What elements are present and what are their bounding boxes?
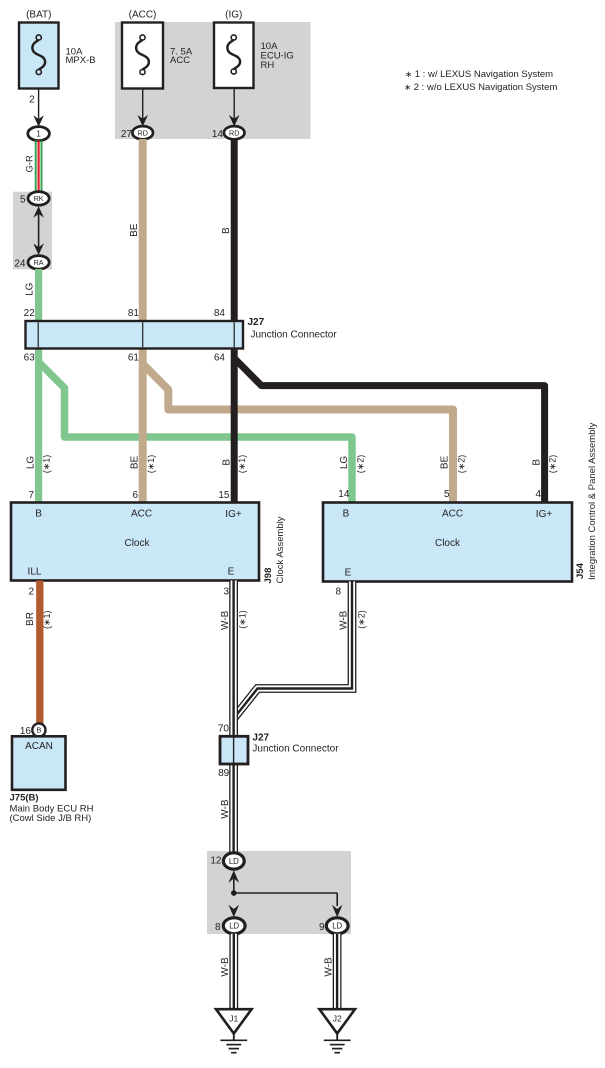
svg-text:(BAT): (BAT) xyxy=(26,10,51,21)
svg-text:70: 70 xyxy=(218,724,230,735)
svg-text:64: 64 xyxy=(214,353,226,364)
svg-text:(∗1): (∗1) xyxy=(42,455,52,474)
svg-text:5: 5 xyxy=(444,489,450,500)
pin 14 connector RD xyxy=(212,126,245,140)
pin 14 (right clock) xyxy=(338,489,350,500)
label J98 Clock Assembly xyxy=(263,516,286,583)
svg-text:J75(B): J75(B) xyxy=(10,793,39,804)
wire B main vertical from pin 14 to clock pin 15 xyxy=(231,139,238,503)
svg-text:89: 89 xyxy=(218,768,230,779)
label LG (*1) xyxy=(26,455,52,474)
pin 5 connector RK xyxy=(20,192,49,206)
svg-text:IG+: IG+ xyxy=(225,509,242,520)
pin 24 connector RA xyxy=(14,256,49,270)
wire BR from ILL to main body ECU xyxy=(36,581,43,724)
svg-text:(∗1): (∗1) xyxy=(146,455,156,474)
svg-text:(∗2): (∗2) xyxy=(548,455,558,474)
arrow down into LD 9 xyxy=(332,905,343,918)
svg-text:Clock Assembly: Clock Assembly xyxy=(275,516,286,583)
svg-text:(∗2): (∗2) xyxy=(457,455,467,474)
junction connector J27 bar xyxy=(26,321,244,349)
double arrow between RK and RA xyxy=(33,206,44,255)
svg-text:RD: RD xyxy=(138,128,148,137)
wire splice horizontal xyxy=(234,893,337,906)
svg-text:ACC: ACC xyxy=(131,509,152,520)
svg-text:E: E xyxy=(228,567,235,578)
pin 2 (ILL) xyxy=(28,587,34,598)
svg-text:ACAN: ACAN xyxy=(25,741,53,752)
fuse (IG) 10A ECU-IG RH xyxy=(214,10,294,89)
svg-text:4: 4 xyxy=(535,489,541,500)
shaded area around RK/RA connectors xyxy=(13,192,52,270)
svg-text:B: B xyxy=(221,459,232,466)
svg-text:B: B xyxy=(343,509,350,520)
svg-text:ILL: ILL xyxy=(28,567,42,578)
svg-text:BE: BE xyxy=(129,456,140,470)
pin 12 connector LD xyxy=(210,853,244,869)
shaded area around LD splice connectors xyxy=(207,851,351,934)
svg-text:22: 22 xyxy=(24,308,36,319)
svg-text:B: B xyxy=(221,227,232,234)
label BR (*1) xyxy=(25,610,52,629)
pin 22 xyxy=(24,308,36,319)
pin 3 (E left clock) xyxy=(223,587,229,598)
pin 15 xyxy=(218,490,230,501)
ground J1 xyxy=(216,1009,252,1052)
svg-text:J27: J27 xyxy=(252,733,269,744)
label J27 Junction Connector (square) xyxy=(252,733,339,755)
shaded area around ACC and IG fuses xyxy=(115,22,311,139)
label J54 Integration Control & Panel Assembly xyxy=(575,422,598,580)
svg-text:5: 5 xyxy=(20,194,26,205)
pin 70 xyxy=(218,724,230,735)
label B (*1) xyxy=(221,455,247,474)
wire LG branch to right clock pin 14 xyxy=(39,362,352,503)
svg-text:J1: J1 xyxy=(229,1014,238,1024)
svg-text:∗ 2 : w/o LEXUS Navigation Sys: ∗ 2 : w/o LEXUS Navigation System xyxy=(404,82,557,93)
svg-text:E: E xyxy=(345,568,352,579)
svg-text:Junction Connector: Junction Connector xyxy=(251,330,338,341)
label BE (*1) xyxy=(129,455,156,474)
svg-text:B: B xyxy=(532,459,543,466)
main body ECU block (ACAN) xyxy=(12,736,66,790)
svg-text:7: 7 xyxy=(28,490,34,501)
svg-text:61: 61 xyxy=(128,353,140,364)
label W-B (*1) xyxy=(220,610,247,630)
pin 84 xyxy=(214,308,226,319)
svg-text:24: 24 xyxy=(14,259,26,270)
label BE (*2) xyxy=(440,455,467,474)
svg-text:2: 2 xyxy=(28,587,34,598)
ground J2 xyxy=(319,1009,355,1052)
label B (*2) xyxy=(532,455,558,474)
label J27 Junction Connector xyxy=(248,317,338,341)
junction connector J27 (square) xyxy=(220,736,248,764)
fuse (ACC) 7.5A ACC xyxy=(122,10,193,89)
svg-text:1: 1 xyxy=(36,129,41,138)
wire BE branch to right clock pin 5 xyxy=(143,364,453,503)
svg-text:J2: J2 xyxy=(333,1014,342,1024)
svg-text:LG: LG xyxy=(339,456,350,470)
svg-text:(IG): (IG) xyxy=(225,10,242,21)
svg-text:BE: BE xyxy=(440,456,451,470)
fuse (BAT) 10A MPX-B xyxy=(19,10,96,89)
wire G-R (green/red) from connector 1 to RK xyxy=(36,140,42,192)
svg-text:RK: RK xyxy=(34,194,44,203)
svg-text:W-B: W-B xyxy=(338,610,349,630)
label LG (*2) xyxy=(339,455,365,474)
pin 63 xyxy=(24,353,36,364)
label G-R xyxy=(24,155,35,173)
svg-text:(∗1): (∗1) xyxy=(237,610,247,629)
svg-text:(Cowl Side J/B RH): (Cowl Side J/B RH) xyxy=(10,813,92,824)
svg-text:2: 2 xyxy=(29,95,35,106)
svg-text:(∗1): (∗1) xyxy=(42,610,52,629)
svg-text:(∗2): (∗2) xyxy=(355,455,365,474)
pin 16 connector B xyxy=(20,723,46,737)
svg-text:G-R: G-R xyxy=(24,155,35,173)
wire LG from RA to junction connector xyxy=(35,269,42,322)
arrow down into LD 8 xyxy=(229,905,240,918)
svg-text:(ACC): (ACC) xyxy=(129,10,157,21)
pin 27 connector RD xyxy=(121,126,153,140)
svg-text:8: 8 xyxy=(335,587,341,598)
svg-text:ACC: ACC xyxy=(170,55,190,66)
label B (top segment) xyxy=(221,227,232,234)
clock J54 (integration control & panel assembly) xyxy=(323,503,572,582)
svg-text:J27: J27 xyxy=(248,317,265,328)
svg-text:ACC: ACC xyxy=(442,509,463,520)
pin 64 xyxy=(214,353,226,364)
wire from IG fuse to pin 14 xyxy=(229,88,240,127)
svg-text:LG: LG xyxy=(24,282,35,296)
pin 89 xyxy=(218,768,230,779)
pin 8 (E right clock) xyxy=(335,587,341,598)
wire W-B to ground J1 xyxy=(229,934,238,1009)
wire from ACC fuse to pin 27 xyxy=(137,89,148,127)
svg-text:27: 27 xyxy=(121,129,133,140)
wire from BAT fuse to connector 1 xyxy=(33,89,44,127)
label W-B (*2) xyxy=(338,610,366,630)
svg-text:14: 14 xyxy=(212,129,224,140)
pin 81 xyxy=(128,308,140,319)
svg-text:14: 14 xyxy=(338,489,350,500)
svg-text:12: 12 xyxy=(210,856,222,867)
pin 61 xyxy=(128,353,140,364)
svg-text:9: 9 xyxy=(319,922,325,933)
svg-text:RH: RH xyxy=(261,60,275,71)
pin 8 connector LD xyxy=(215,918,245,934)
svg-text:15: 15 xyxy=(218,490,230,501)
svg-text:Integration Control & Panel As: Integration Control & Panel Assembly xyxy=(587,422,598,580)
svg-text:LD: LD xyxy=(229,857,239,866)
wire BE main vertical from pin 27 to clock pin 6 xyxy=(139,139,147,503)
svg-text:81: 81 xyxy=(128,308,140,319)
svg-text:(∗1): (∗1) xyxy=(237,455,247,474)
pin 7 xyxy=(28,490,34,501)
wire B branch to right clock pin 4 xyxy=(234,358,544,503)
svg-text:BR: BR xyxy=(25,612,36,626)
svg-text:Clock: Clock xyxy=(124,538,150,549)
svg-text:(∗2): (∗2) xyxy=(356,610,366,629)
connector 1 xyxy=(28,127,50,141)
label J75(B) Main Body ECU RH (Cowl Side J/B RH) xyxy=(10,793,94,825)
label BE (top segment) xyxy=(129,223,140,237)
svg-text:BE: BE xyxy=(129,223,140,237)
svg-text:LG: LG xyxy=(26,456,37,470)
svg-text:RA: RA xyxy=(34,258,44,267)
note *1 / *2 xyxy=(404,69,557,93)
label W-B (J1) xyxy=(220,957,231,977)
svg-text:Junction Connector: Junction Connector xyxy=(252,744,339,755)
wire W-B from right clock E xyxy=(234,582,352,719)
svg-text:∗ 1 : w/ LEXUS Navigation Syst: ∗ 1 : w/ LEXUS Navigation System xyxy=(405,69,553,80)
svg-text:W-B: W-B xyxy=(220,799,231,819)
svg-text:LD: LD xyxy=(332,922,342,931)
svg-text:B: B xyxy=(36,726,41,735)
pin 9 connector LD xyxy=(319,918,348,934)
clock J98 (clock assembly) xyxy=(11,503,259,581)
svg-text:W-B: W-B xyxy=(220,610,231,630)
pin 2 label xyxy=(29,95,35,106)
svg-text:W-B: W-B xyxy=(220,957,231,977)
pin 5 (right clock) xyxy=(444,489,450,500)
svg-text:63: 63 xyxy=(24,353,36,364)
arrow up into LD 12 xyxy=(229,870,240,893)
label W-B (below junction) xyxy=(220,799,231,819)
svg-text:3: 3 xyxy=(223,587,229,598)
svg-text:B: B xyxy=(35,509,42,520)
label W-B (J2) xyxy=(323,957,334,977)
splice junction dot xyxy=(231,890,237,896)
svg-text:84: 84 xyxy=(214,308,226,319)
svg-text:8: 8 xyxy=(215,922,221,933)
pin 6 xyxy=(132,490,138,501)
label LG xyxy=(24,282,35,296)
svg-text:MPX-B: MPX-B xyxy=(66,55,96,66)
svg-text:W-B: W-B xyxy=(323,957,334,977)
pin 4 (right clock) xyxy=(535,489,541,500)
svg-text:J98: J98 xyxy=(263,568,274,584)
svg-text:LD: LD xyxy=(229,922,239,931)
wire LG main vertical to clock pin 7 xyxy=(35,347,42,503)
svg-text:J54: J54 xyxy=(575,562,586,579)
svg-text:6: 6 xyxy=(132,490,138,501)
wire W-B to ground J2 xyxy=(333,934,342,1009)
svg-text:RD: RD xyxy=(229,128,239,137)
wire W-B from left clock E to splice xyxy=(229,581,238,854)
svg-text:Clock: Clock xyxy=(435,538,461,549)
svg-text:IG+: IG+ xyxy=(536,509,553,520)
